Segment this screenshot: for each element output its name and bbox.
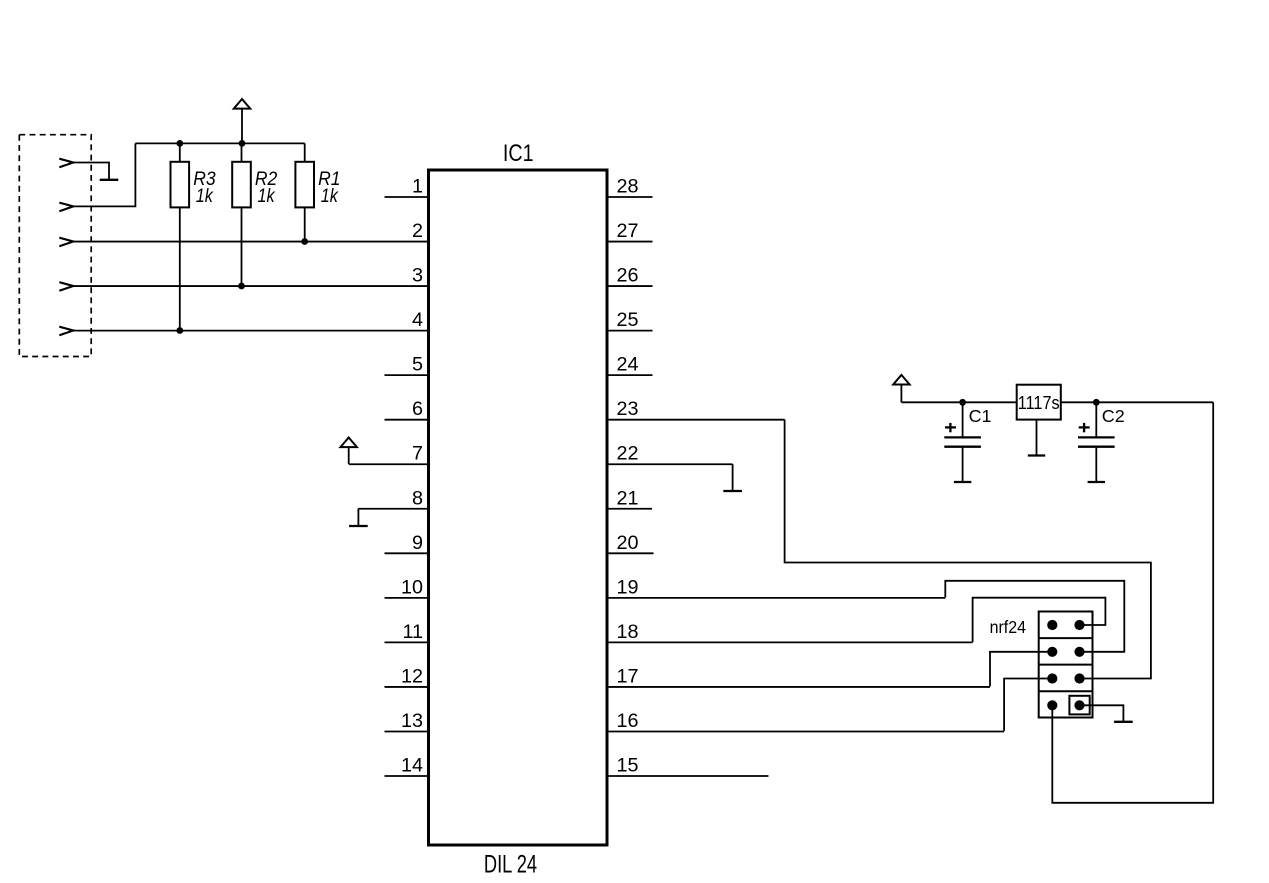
wire net pin23 to nrf24 pin (row3 right) — [785, 420, 1151, 679]
resistor R3 — [171, 143, 190, 207]
wire/stub IC pin 23 — [607, 419, 785, 421]
svg-text:10: 10 — [401, 576, 423, 598]
node junction C2 — [1093, 399, 1100, 406]
nrf24 pin row2 right — [1074, 647, 1084, 657]
wire right rail down to nrf24 — [1052, 402, 1213, 803]
node junction R1/pin2 net — [301, 238, 308, 245]
pin number 18 — [617, 621, 639, 643]
wire C1 to regulator — [963, 401, 1017, 403]
wire/stub IC pin 11 — [385, 641, 429, 643]
value R3 1k — [196, 185, 214, 207]
value R1 1k — [321, 185, 339, 207]
svg-text:1k: 1k — [196, 185, 214, 207]
resistor R1 — [295, 143, 314, 207]
svg-text:19: 19 — [617, 576, 639, 598]
connector nrf24 header body — [1039, 612, 1093, 718]
pin number 5 — [412, 354, 423, 376]
wire/stub IC pin 16 — [607, 730, 1004, 732]
wire net pin18 to nrf24 pin (row1 right) — [973, 598, 1106, 642]
label R3 — [193, 168, 216, 190]
pin number 14 — [401, 755, 423, 777]
nrf24 pin row4 right — [1074, 700, 1084, 710]
pin number 3 — [412, 265, 423, 287]
wire regulator to C2 — [1061, 401, 1097, 403]
wire net pin17 to nrf24 pin (row2 left) — [990, 652, 1052, 687]
wire/stub IC pin 6 — [385, 419, 429, 421]
wire top Vcc bus — [135, 142, 304, 144]
svg-text:26: 26 — [617, 265, 639, 287]
wire/stub IC pin 9 — [385, 552, 429, 554]
wire/stub IC pin 1 — [385, 196, 429, 198]
svg-text:28: 28 — [617, 176, 639, 198]
wire/stub IC pin 13 — [385, 730, 429, 732]
label C2 — [1102, 406, 1125, 426]
svg-text:1117s: 1117s — [1018, 393, 1060, 413]
ground (C1) — [954, 481, 971, 483]
svg-text:C2: C2 — [1102, 406, 1125, 426]
plus sign C1 — [945, 423, 956, 432]
wire/stub IC pin 25 — [607, 330, 653, 332]
svg-text:8: 8 — [412, 487, 423, 509]
pin number 13 — [401, 710, 423, 732]
svg-text:18: 18 — [617, 621, 639, 643]
connector pin 1 arrow — [59, 159, 73, 168]
node junction bus/R2-Vcc — [239, 140, 246, 147]
wire/stub IC pin 4 — [73, 330, 429, 332]
wire/stub IC pin 12 — [385, 686, 429, 688]
wire nrf24 gnd pin — [1080, 705, 1124, 721]
svg-text:IC1: IC1 — [503, 140, 534, 167]
svg-text:21: 21 — [617, 487, 639, 509]
wire connector pin2 to top bus — [73, 143, 135, 206]
pin number 20 — [617, 532, 639, 554]
power Vcc symbol (top) — [234, 99, 250, 143]
svg-text:20: 20 — [617, 532, 639, 554]
regulator U2 1117s body — [1017, 385, 1061, 420]
pin number 9 — [412, 532, 423, 554]
wire regulator gnd — [1036, 420, 1038, 455]
ground (C2) — [1088, 481, 1105, 483]
plus sign C2 — [1079, 423, 1090, 432]
wire/stub IC pin 22 — [607, 463, 733, 465]
ground (nrf24) — [1114, 721, 1133, 723]
wire net pin19 to nrf24 pin (row2 right) — [945, 581, 1124, 652]
node junction R3/pin4 net — [176, 327, 183, 334]
connector pin 4 arrow — [59, 282, 73, 291]
pin number 22 — [617, 443, 639, 465]
wire/stub IC pin 15 — [607, 775, 769, 777]
wire/stub IC pin 17 — [607, 686, 990, 688]
pin number 1 — [412, 176, 423, 198]
pin number 17 — [617, 665, 639, 687]
label 1117s — [1018, 393, 1060, 413]
wire/stub IC pin 7 — [349, 463, 429, 465]
pin number 2 — [412, 220, 423, 242]
ground (pin 22) — [723, 490, 742, 492]
label C1 — [969, 406, 992, 426]
pin number 19 — [617, 576, 639, 598]
pin number 15 — [617, 755, 639, 777]
svg-text:1k: 1k — [321, 185, 339, 207]
wire/stub IC pin 2 — [73, 241, 429, 243]
svg-text:1k: 1k — [258, 185, 276, 207]
nrf24 pin row4 left — [1047, 700, 1057, 710]
svg-text:3: 3 — [412, 265, 423, 287]
connector pin 5 arrow — [59, 327, 73, 336]
nrf24 pin row2 left — [1047, 647, 1057, 657]
wire R3 bottom — [179, 207, 181, 330]
pin number 16 — [617, 710, 639, 732]
wire/stub IC pin 28 — [607, 196, 653, 198]
wire connector pin1 to ground — [73, 163, 109, 180]
pin number 4 — [412, 309, 423, 331]
resistor R2 — [232, 143, 251, 207]
label R2 — [255, 168, 278, 190]
svg-text:12: 12 — [401, 665, 423, 687]
nrf24 pin row1 left — [1047, 620, 1057, 630]
pin number 26 — [617, 265, 639, 287]
pin number 24 — [617, 354, 639, 376]
svg-text:22: 22 — [617, 443, 639, 465]
ground (connector) — [100, 179, 119, 181]
svg-text:1: 1 — [412, 176, 423, 198]
node junction C1 — [959, 399, 966, 406]
svg-text:11: 11 — [402, 621, 423, 643]
pin number 28 — [617, 176, 639, 198]
svg-text:6: 6 — [412, 398, 423, 420]
svg-text:25: 25 — [617, 309, 639, 331]
power Vcc symbol (pin 7) — [341, 438, 357, 465]
svg-text:15: 15 — [617, 755, 639, 777]
wire/stub IC pin 27 — [607, 241, 653, 243]
value R2 1k — [258, 185, 276, 207]
svg-text:5: 5 — [412, 354, 423, 376]
svg-text:24: 24 — [617, 354, 639, 376]
capacitor C1 — [944, 402, 981, 481]
wire pin22 down — [732, 464, 734, 491]
nrf24 pin row1 right — [1074, 620, 1084, 630]
pin number 7 — [412, 443, 423, 465]
svg-text:DIL 24: DIL 24 — [484, 851, 537, 879]
wire/stub IC pin 20 — [607, 552, 654, 554]
label R1 — [318, 168, 340, 190]
node junction R2/pin3 net — [238, 283, 245, 290]
nrf24 pin-1 marker square — [1069, 696, 1089, 715]
wire/stub IC pin 8 — [358, 508, 428, 510]
pin number 21 — [617, 487, 639, 509]
label IC1 — [503, 140, 534, 167]
pin number 6 — [412, 398, 423, 420]
svg-text:17: 17 — [617, 665, 639, 687]
wire/stub IC pin 3 — [73, 285, 429, 287]
svg-text:nrf24: nrf24 — [990, 617, 1027, 637]
svg-text:4: 4 — [412, 309, 423, 331]
wire/stub IC pin 26 — [607, 285, 653, 287]
pin number 11 — [402, 621, 423, 643]
wire Vcc to C1 — [901, 401, 962, 403]
svg-text:16: 16 — [617, 710, 639, 732]
wire/stub IC pin 18 — [607, 641, 973, 643]
wire/stub IC pin 10 — [385, 597, 429, 599]
pin number 12 — [401, 665, 423, 687]
svg-text:9: 9 — [412, 532, 423, 554]
svg-text:14: 14 — [401, 755, 423, 777]
label nrf24 — [990, 617, 1027, 637]
svg-text:23: 23 — [617, 398, 639, 420]
wire C2 to right rail — [1096, 401, 1213, 403]
ground (pin 8) — [349, 509, 368, 527]
nrf24 pin row3 left — [1047, 673, 1057, 683]
wire net pin16 to nrf24 pin (row3 left) — [1004, 679, 1052, 732]
connector SV1 (dashed outline) — [19, 135, 91, 357]
connector pin 3 arrow — [59, 238, 73, 247]
label DIL 24 — [484, 851, 537, 879]
node junction bus/R3 — [176, 140, 183, 147]
connector pin 2 arrow — [59, 203, 73, 212]
pin number 23 — [617, 398, 639, 420]
pin number 10 — [401, 576, 423, 598]
svg-text:13: 13 — [401, 710, 423, 732]
ground (regulator) — [1028, 454, 1045, 456]
wire/stub IC pin 14 — [385, 775, 429, 777]
svg-text:C1: C1 — [969, 406, 992, 426]
wire/stub IC pin 19 — [607, 597, 945, 599]
wire R1 bottom — [304, 207, 306, 241]
svg-text:2: 2 — [412, 220, 423, 242]
svg-text:27: 27 — [617, 220, 639, 242]
pin number 25 — [617, 309, 639, 331]
wire/stub IC pin 24 — [607, 374, 653, 376]
wire R2 bottom — [241, 207, 243, 286]
IC U1 body — [429, 170, 608, 845]
pin number 8 — [412, 487, 423, 509]
capacitor C2 — [1078, 402, 1115, 481]
svg-text:7: 7 — [412, 443, 423, 465]
wire/stub IC pin 5 — [385, 374, 429, 376]
wire/stub IC pin 21 — [607, 508, 652, 510]
nrf24 pin row3 right — [1074, 673, 1084, 683]
pin number 27 — [617, 220, 639, 242]
power Vcc symbol (supply) — [893, 375, 909, 402]
